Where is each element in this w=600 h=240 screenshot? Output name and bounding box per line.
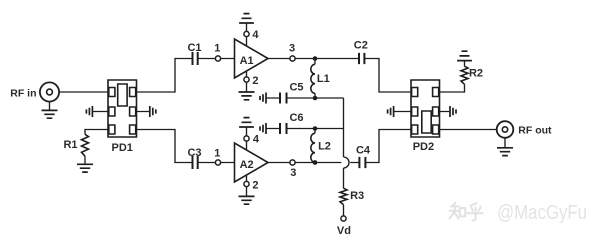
svg-text:RF in: RF in (10, 87, 36, 99)
svg-text:R2: R2 (469, 67, 483, 79)
svg-text:3: 3 (290, 167, 296, 179)
svg-text:PD2: PD2 (413, 141, 434, 153)
svg-text:A2: A2 (240, 159, 254, 171)
svg-text:R3: R3 (350, 190, 364, 202)
svg-text:2: 2 (252, 179, 258, 191)
svg-text:C1: C1 (187, 42, 201, 54)
svg-text:1: 1 (214, 42, 220, 54)
svg-text:R1: R1 (63, 139, 77, 151)
svg-text:C4: C4 (356, 144, 371, 156)
svg-text:PD1: PD1 (111, 142, 132, 154)
svg-text:A1: A1 (240, 55, 254, 67)
svg-text:C6: C6 (289, 112, 303, 124)
svg-text:1: 1 (214, 147, 220, 159)
svg-text:RF out: RF out (518, 124, 552, 136)
svg-text:C5: C5 (289, 81, 303, 93)
svg-text:2: 2 (252, 75, 258, 87)
svg-text:4: 4 (253, 133, 260, 145)
svg-text:@MacGyFu: @MacGyFu (497, 201, 587, 224)
svg-text:4: 4 (252, 29, 259, 41)
svg-text:C3: C3 (187, 147, 201, 159)
svg-text:3: 3 (289, 42, 295, 54)
svg-text:L1: L1 (317, 73, 330, 85)
svg-text:Vd: Vd (337, 225, 351, 237)
svg-text:L2: L2 (318, 141, 331, 153)
svg-text:C2: C2 (354, 40, 368, 52)
